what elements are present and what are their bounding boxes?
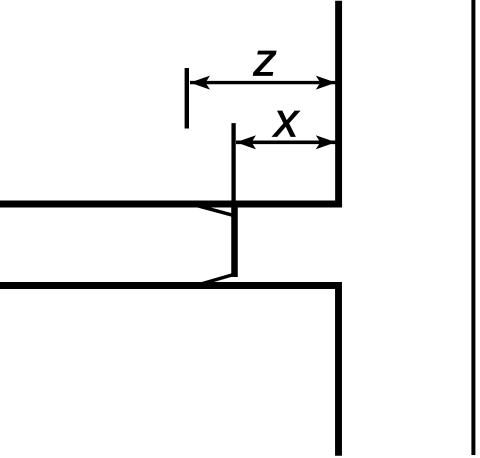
svg-text:z: z <box>253 34 277 86</box>
svg-text:x: x <box>272 94 300 147</box>
